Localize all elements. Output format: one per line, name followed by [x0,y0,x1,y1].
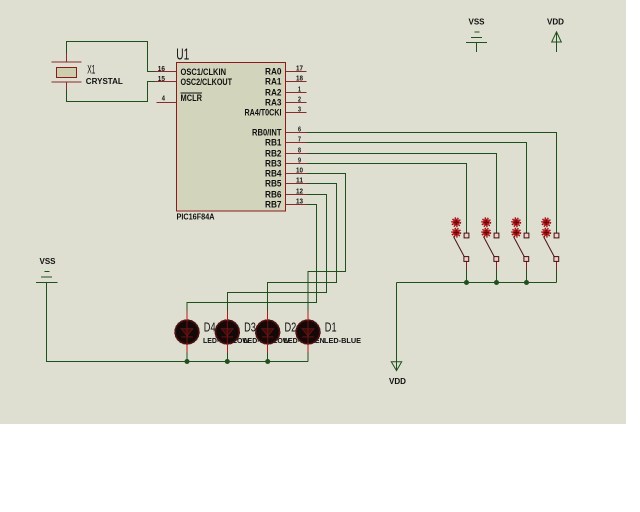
svg-text:RB6: RB6 [265,190,282,200]
svg-text:1: 1 [298,84,301,93]
svg-text:2: 2 [298,94,301,103]
svg-text:RB5: RB5 [265,179,282,189]
svg-text:VDD: VDD [389,377,406,386]
svg-text:D2: D2 [285,320,297,335]
svg-text:8: 8 [298,145,301,154]
svg-text:17: 17 [296,63,303,72]
svg-text:RA4/T0CKI: RA4/T0CKI [245,108,282,118]
svg-text:CRYSTAL: CRYSTAL [86,77,123,86]
svg-text:PIC16F84A: PIC16F84A [177,213,215,222]
svg-text:LED-BLUE: LED-BLUE [324,336,361,345]
svg-text:RB3: RB3 [265,159,282,169]
svg-text:RA0: RA0 [265,67,282,77]
svg-text:RB7: RB7 [265,200,282,210]
svg-text:MCLR: MCLR [181,93,203,103]
svg-text:VDD: VDD [547,18,564,27]
svg-text:7: 7 [298,134,301,143]
svg-text:9: 9 [298,155,301,164]
svg-text:RB0/INT: RB0/INT [252,128,282,138]
svg-text:15: 15 [158,74,165,83]
svg-text:OSC1/CLKIN: OSC1/CLKIN [181,67,227,77]
svg-text:12: 12 [296,186,303,195]
svg-text:18: 18 [296,73,303,82]
svg-text:VSS: VSS [469,18,486,27]
svg-text:13: 13 [296,196,303,205]
svg-text:16: 16 [158,64,165,73]
svg-text:6: 6 [298,124,301,133]
svg-text:U1: U1 [176,47,189,64]
svg-text:RA2: RA2 [265,88,282,98]
svg-text:VSS: VSS [40,257,57,266]
svg-text:OSC2/CLKOUT: OSC2/CLKOUT [181,77,233,87]
svg-text:D3: D3 [244,320,256,335]
svg-text:RA1: RA1 [265,77,282,87]
svg-text:RB2: RB2 [265,149,282,159]
svg-text:RB4: RB4 [265,169,282,179]
svg-text:RB1: RB1 [265,138,282,148]
svg-text:10: 10 [296,165,303,174]
svg-text:X1: X1 [87,64,95,76]
svg-text:D1: D1 [325,320,337,335]
svg-text:D4: D4 [204,320,216,335]
svg-text:RA3: RA3 [265,98,282,108]
svg-text:11: 11 [296,175,303,184]
svg-text:3: 3 [298,104,301,113]
